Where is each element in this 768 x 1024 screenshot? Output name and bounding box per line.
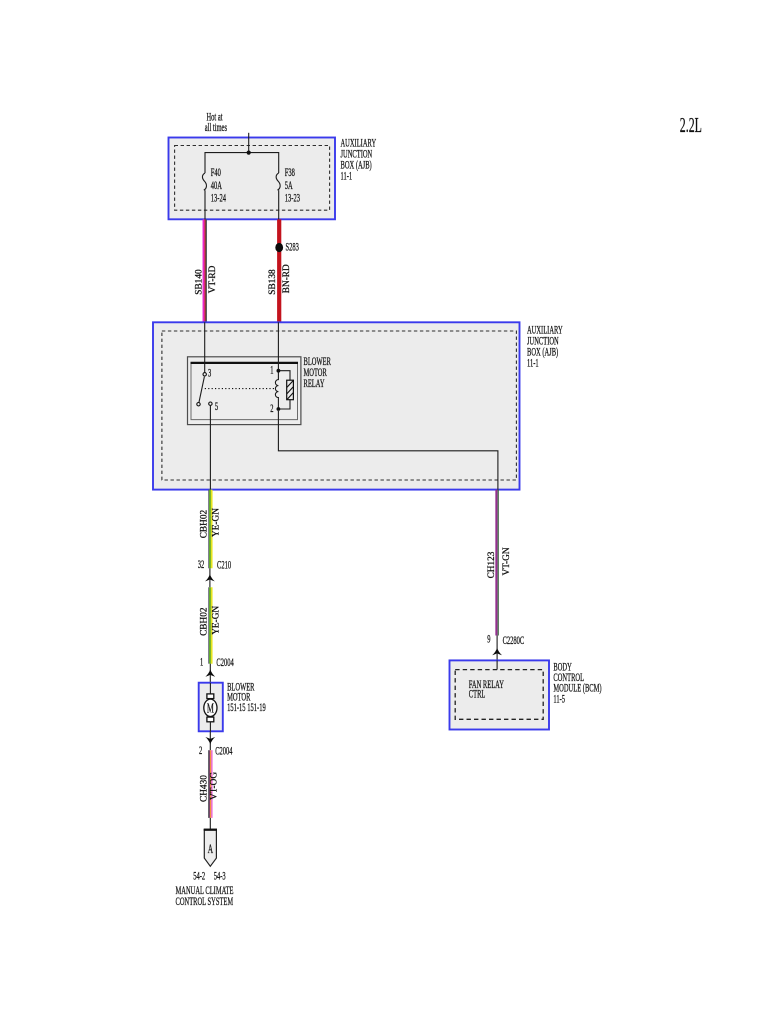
svg-text:F38: F38 [285,168,295,180]
svg-text:C2004: C2004 [215,746,233,758]
motor M symbol [204,683,217,732]
svg-text:CBH02: CBH02 [199,607,209,636]
svg-text:VT-GN: VT-GN [502,547,512,575]
svg-text:54-2: 54-2 [193,871,205,883]
svg-text:32: 32 [198,560,205,572]
svg-text:SB138: SB138 [268,269,278,295]
wire into relay pin3 [204,322,206,372]
svg-text:3: 3 [208,368,211,380]
svg-text:5: 5 [215,401,218,413]
fuse F38 symbol [276,173,280,219]
fuse F40 symbol [202,173,206,219]
relay coil loop [278,371,290,409]
wire into pointer A [209,818,211,829]
label FAN RELAY CTRL [469,679,504,701]
label MANUAL CLIMATE CONTROL SYSTEM [176,885,234,909]
relay pin 5 [209,401,219,413]
svg-text:13-23: 13-23 [285,193,300,205]
wire from hot-at label into AJB [248,133,250,153]
relay coil wire pin1-pin2 [275,371,278,409]
svg-text:CH123: CH123 [487,551,497,578]
wire bus inside fuse box [205,153,279,173]
svg-text:11-1: 11-1 [527,358,539,370]
relay coil hatched box [287,380,294,400]
relay pin 2 [270,403,280,415]
label 54-2 54-3 [193,871,226,883]
label F40 40A 13-24 [211,168,226,206]
svg-text:11-1: 11-1 [341,171,353,183]
wire into fan relay ctrl [496,660,498,669]
wire SB138 BN-RD (red) [277,219,281,322]
node junction dot [247,151,251,155]
svg-text:S283: S283 [286,242,300,254]
svg-text:11-5: 11-5 [553,694,565,706]
svg-text:40A: 40A [211,180,222,192]
wire CBH02 YE-GN segment 2 [209,587,212,663]
svg-text:A: A [208,843,214,857]
wire pin2 to box exit right [278,411,498,490]
relay pin 1 [270,365,280,377]
svg-text:BN-RD: BN-RD [282,264,292,293]
wire CH430 VT-OG [209,750,212,818]
svg-text:YE-GN: YE-GN [212,606,222,635]
svg-text:2: 2 [199,746,202,758]
box blower motor [199,683,223,732]
svg-text:2.2L: 2.2L [680,113,702,136]
svg-text:C2280C: C2280C [503,635,525,647]
label Hot at all times [205,112,227,135]
relay switch pin 3 [203,368,211,380]
relay switch contact [197,403,200,406]
relay box (blower motor relay) [188,357,301,425]
relay dotted link [205,388,275,390]
relay switch arm [199,377,205,403]
svg-text:YE-GN: YE-GN [212,508,222,537]
box AJB relay box [153,322,520,489]
connector C210 [198,560,232,588]
pointer A (manual climate control) [204,830,217,867]
label F38 5A 13-23 [285,168,300,206]
svg-text:CBH02: CBH02 [199,510,209,539]
svg-text:5A: 5A [285,180,293,192]
svg-text:F40: F40 [211,168,221,180]
svg-text:all times: all times [205,122,227,134]
wire into relay pin1 [277,322,279,370]
svg-text:C210: C210 [217,560,231,572]
box AJB fuse box [169,138,336,220]
svg-text:9: 9 [487,634,490,646]
svg-text:CH430: CH430 [200,775,210,802]
svg-text:RELAY: RELAY [304,379,325,391]
wire CBH02 YE-GN segment 1 [209,490,212,569]
label AUXILIARY JUNCTION BOX (AJB) 11-1 (top) [341,138,377,183]
box BCM [450,660,550,729]
svg-text:151-19: 151-19 [247,702,266,714]
label BLOWER MOTOR 151-15 151-19 [227,682,266,715]
svg-text:CONTROL SYSTEM: CONTROL SYSTEM [176,897,234,909]
svg-text:VT-OG: VT-OG [210,772,220,800]
svg-text:1: 1 [270,365,273,377]
svg-text:VT-RD: VT-RD [208,265,218,293]
svg-text:13-24: 13-24 [211,193,226,205]
svg-text:1: 1 [200,657,203,669]
svg-text:C2004: C2004 [216,657,234,669]
connector C2004 pin2 (down arrow) [199,731,233,758]
label BLOWER MOTOR RELAY [304,357,332,391]
svg-text:SB140: SB140 [194,269,204,295]
label BODY CONTROL MODULE (BCM) 11-5 [553,662,601,706]
svg-text:M: M [207,701,214,716]
wire pin5 to box bottom [209,405,211,489]
svg-text:CTRL: CTRL [469,689,486,701]
svg-text:54-3: 54-3 [214,871,226,883]
wire SB140 VT-RD (striped) [204,219,207,322]
svg-text:151-15: 151-15 [227,702,246,714]
connector C2280C [487,634,524,660]
node S283 [275,243,283,252]
label 2.2L [680,113,702,136]
label AUXILIARY JUNCTION BOX (AJB) 11-1 (middle) [527,325,563,370]
wire CH123 VT-GN [496,490,498,636]
connector C2004 pin1 [200,657,234,683]
svg-text:2: 2 [270,403,273,415]
